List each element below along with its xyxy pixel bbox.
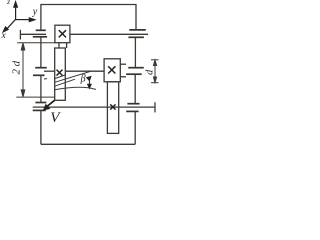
svg-text:x: x <box>1 31 7 41</box>
svg-text:z: z <box>6 0 10 6</box>
svg-text:2d: 2d <box>11 58 23 74</box>
svg-text:d: d <box>145 69 156 75</box>
svg-text:β: β <box>80 73 86 84</box>
svg-text:y: y <box>32 6 38 17</box>
svg-text:V: V <box>50 110 61 126</box>
